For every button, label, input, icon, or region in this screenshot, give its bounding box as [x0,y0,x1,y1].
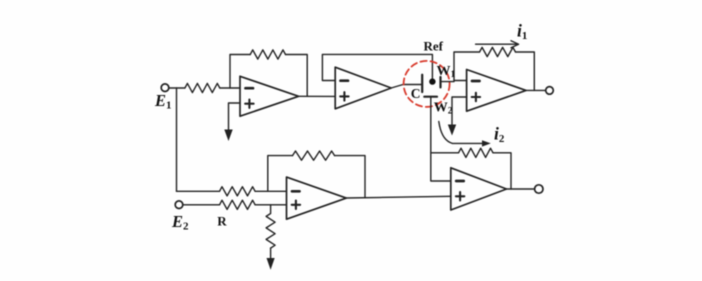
svg-text:Ref: Ref [424,39,444,54]
wire E1 to resistor [169,87,185,89]
resistor A3 feedback [480,47,516,56]
wire A1 feedback right vertical [286,55,308,97]
svg-text:W1: W1 [437,64,456,80]
terminal out2 [535,185,543,193]
resistor A4 feedback [293,151,335,160]
wire A3 feedback right vertical [516,52,535,90]
wire W1 to A3 inverting input [441,81,467,82]
op-amp A3 [467,70,526,112]
ground arrow A1 [224,130,232,142]
terminal out1 [546,87,554,95]
op-amp A4 [287,177,347,219]
svg-text:E2: E2 [171,212,189,233]
wire A3 feedback left vertical [454,52,480,81]
wire A1 feedback left vertical [230,55,250,89]
wire A5 output to terminal [507,188,535,190]
op-amp A2 [335,67,391,109]
wire A5 feedback right vertical [493,153,511,189]
pot plate W2 [424,96,437,98]
op-amp A1 [240,76,299,116]
wire to A4 inverting input [255,190,286,192]
wire E2 to resistor R [183,204,220,206]
resistor A1 feedback [250,50,285,59]
node E1 junction [176,88,178,191]
resistor to ground vertical [266,214,275,249]
wire A2 output to pot C terminal [391,85,422,89]
wire A1 plus input to ground [229,103,241,131]
terminal E1 [161,84,169,92]
pot plate C [421,75,423,92]
pot wiper dot [429,78,435,84]
wire A1 output to A2 plus input [299,95,336,97]
wire resistor to ground arrow [270,248,272,259]
resistor R [220,200,256,209]
svg-text:W2: W2 [434,101,453,117]
resistor R-in A1 [185,83,220,92]
svg-text:E1: E1 [154,91,172,112]
wire A2 inverting input to Ref node [322,54,432,80]
svg-text:i2: i2 [494,124,505,146]
red dashed circle [404,61,450,107]
pot plate W1 [439,77,441,87]
wire resistor to A1 inverting input [220,87,240,89]
wire A3 plus input down with arrow [452,97,467,126]
ground arrow A4 [267,258,275,270]
curved arrow i2 [439,122,485,144]
wire W2 to A5 feedback resistor [431,152,459,154]
op-amp A5 [451,168,507,210]
wire A4 plus node down [270,205,272,213]
wire to A4 plus input [255,204,286,206]
wire E1-node to A4 inverting resistor [177,190,220,192]
svg-text:i1: i1 [517,21,527,43]
wire A3 output to terminal [526,89,546,91]
resistor A5 feedback [459,148,494,157]
resistor A4 inverting input [220,187,256,196]
wire A4 feedback left vertical [268,156,293,192]
wire A4 feedback right vertical [335,156,365,198]
svg-text:C: C [411,86,421,101]
svg-text:R: R [217,214,227,229]
terminal E2 [175,201,183,209]
wire A4 output to A5 plus input [346,196,451,198]
arrow i1 [476,43,518,45]
wire W2 down [431,97,451,181]
